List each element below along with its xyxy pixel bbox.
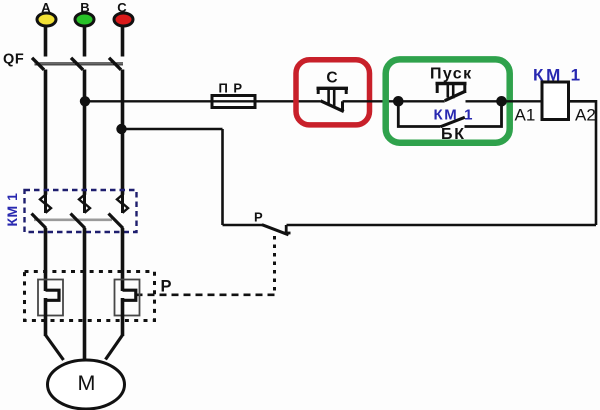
- svg-text:QF: QF: [3, 52, 24, 68]
- wire node C to corner: [122, 128, 223, 131]
- wire QF pole A down to KM1 contact: [44, 70, 48, 195]
- svg-text:Р: Р: [161, 278, 172, 296]
- wire fuse to stop button: [212, 100, 321, 102]
- thermal relay heater element 1 conductor: [46, 290, 60, 300]
- stop button С actuator (T-bar with stems): [317, 87, 349, 106]
- wire QF pole C down to KM1 contact: [121, 70, 125, 195]
- svg-text:БК: БК: [441, 126, 466, 143]
- KM1 main contact pole A: [40, 194, 51, 213]
- svg-text:Р: Р: [254, 210, 263, 225]
- wire heater 1 to motor: [46, 298, 64, 360]
- thermal relay NC contact seat: [283, 225, 290, 233]
- mechanical link dashed horizontal: [136, 293, 275, 296]
- QF pole C lever: [109, 58, 121, 70]
- wire contact A to heater 1: [44, 228, 48, 291]
- thermal relay NC contact lever: [262, 225, 289, 235]
- KM1 contacts linkage bar (gray): [34, 219, 112, 222]
- QF pole B lever: [71, 58, 83, 70]
- phase terminal B: [75, 0, 94, 26]
- junction node on phase B: [80, 96, 90, 106]
- auxiliary contact branch right wire: [465, 101, 502, 126]
- contactor coil KM1 body: [542, 82, 569, 120]
- svg-text:КМ 1: КМ 1: [4, 193, 20, 227]
- start button NO contact: [445, 91, 466, 101]
- auxiliary contact branch left wire: [398, 101, 440, 126]
- thermal relay heater element 2 frame: [115, 280, 140, 316]
- svg-text:А2: А2: [575, 106, 596, 125]
- thermal relay heater element 1 frame: [38, 280, 63, 316]
- wire contact B to motor: [83, 228, 87, 361]
- KM1 main contact pole C: [117, 194, 128, 213]
- motor M body: [48, 360, 125, 409]
- svg-text:ПР: ПР: [219, 81, 248, 96]
- wire phase B to QF: [83, 26, 87, 57]
- mechanical link dotted vertical: [273, 236, 276, 295]
- KM1 main contact lever A: [32, 214, 47, 229]
- start button actuator (T-bar with stems): [436, 82, 467, 99]
- wire node right to coil A1: [502, 100, 543, 102]
- wire corner to thermal contact: [223, 224, 263, 227]
- wire node left to start contact: [398, 100, 445, 102]
- junction node left of start button: [393, 96, 404, 107]
- KM1 main contact pole B: [79, 194, 90, 213]
- wire control return bottom: [287, 224, 597, 227]
- svg-text:А1: А1: [515, 106, 536, 125]
- QF pole A lever: [32, 58, 44, 70]
- thermal relay heater element 2 conductor: [123, 290, 136, 300]
- wire control feed node B to fuse: [85, 100, 212, 102]
- KM1 main contact lever B: [71, 214, 86, 229]
- svg-text:М: М: [78, 371, 96, 395]
- wire heater 2 to motor: [106, 298, 123, 360]
- red highlight box around stop button: [296, 60, 370, 125]
- phase terminal C: [114, 0, 133, 26]
- auxiliary NO contact БК: [441, 117, 465, 126]
- wire stop button to start button box: [343, 100, 399, 102]
- phase terminal A: [37, 0, 56, 26]
- thermal relay dotted box: [25, 272, 155, 321]
- wire phase C to QF: [121, 26, 125, 57]
- wire coil A2 to control return (right side down): [569, 101, 597, 225]
- QF mechanical linkage bar: [35, 63, 124, 65]
- wire contact C to heater 2: [121, 228, 125, 291]
- KM1 main contact block dashed box: [25, 190, 137, 232]
- junction node right of start button: [496, 96, 507, 107]
- wire QF pole B down to KM1 contact: [83, 70, 87, 195]
- wire corner down: [221, 129, 224, 225]
- KM1 main contact lever C: [109, 214, 124, 229]
- svg-text:Пуск: Пуск: [430, 66, 473, 83]
- wire start contact to node right: [466, 100, 502, 102]
- green highlight box around start button and BK contact: [386, 59, 510, 142]
- fuse ПР body: [212, 96, 255, 108]
- wire phase A to QF: [44, 26, 48, 57]
- svg-text:С: С: [326, 70, 337, 87]
- junction node on phase C: [116, 124, 126, 134]
- stop button С NC contact: [321, 101, 344, 112]
